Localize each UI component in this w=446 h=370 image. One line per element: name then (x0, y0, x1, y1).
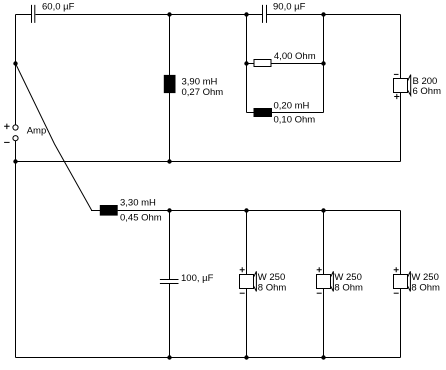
svg-text:0,45 Ohm: 0,45 Ohm (120, 213, 162, 224)
svg-text:8 Ohm: 8 Ohm (411, 282, 440, 293)
svg-text:0,27 Ohm: 0,27 Ohm (182, 87, 224, 98)
svg-text:0,10 Ohm: 0,10 Ohm (274, 114, 316, 125)
svg-text:8 Ohm: 8 Ohm (258, 282, 287, 293)
svg-text:Amp: Amp (27, 125, 47, 136)
svg-text:0,20 mH: 0,20 mH (274, 100, 310, 111)
svg-text:6 Ohm: 6 Ohm (413, 86, 442, 97)
svg-text:4,00 Ohm: 4,00 Ohm (274, 51, 316, 62)
svg-text:100, µF: 100, µF (181, 273, 214, 284)
svg-text:3,30 mH: 3,30 mH (120, 198, 156, 209)
svg-text:8 Ohm: 8 Ohm (334, 282, 363, 293)
svg-text:90,0 µF: 90,0 µF (273, 1, 306, 12)
svg-text:60,0 µF: 60,0 µF (42, 1, 75, 12)
